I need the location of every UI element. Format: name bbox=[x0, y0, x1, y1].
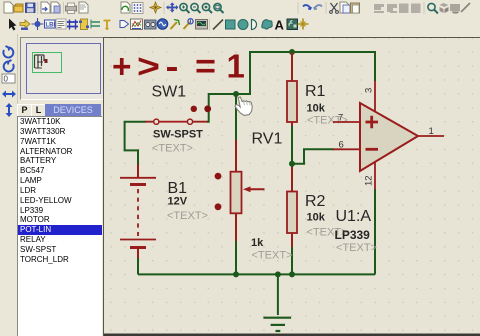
switch SW1 bbox=[145, 105, 211, 124]
svg-text:3: 3 bbox=[364, 88, 375, 93]
svg-text:7: 7 bbox=[338, 113, 343, 124]
2D symbol bbox=[287, 19, 298, 30]
tape recorder mode bbox=[145, 20, 157, 29]
terminal mode bbox=[91, 20, 100, 29]
terminal D bbox=[120, 21, 129, 28]
mouse cursor (hand) bbox=[235, 97, 252, 115]
generator mode bbox=[157, 19, 168, 30]
wire: R2 bottom to ground rail bbox=[291, 246, 293, 274]
svg-text:1: 1 bbox=[227, 48, 245, 85]
2D arc bbox=[252, 20, 257, 30]
junction dots bbox=[233, 49, 295, 277]
svg-text:SW-SPST: SW-SPST bbox=[153, 129, 203, 141]
junction R2 bottom bbox=[289, 271, 295, 277]
wire: battery negative to rail bbox=[137, 257, 139, 274]
wiper arrow bbox=[248, 188, 265, 190]
svg-text:>: > bbox=[137, 48, 160, 85]
svg-text:R2: R2 bbox=[305, 193, 326, 210]
node A junction (supply to RV1) bbox=[233, 91, 239, 97]
wire: node B to op-amp pin 6 bbox=[292, 149, 334, 163]
svg-text:LP339: LP339 bbox=[335, 228, 371, 242]
svg-text:10k: 10k bbox=[307, 103, 326, 115]
svg-text:B1: B1 bbox=[168, 180, 188, 197]
editor background bbox=[103, 37, 480, 336]
U1 pin numbers bbox=[338, 88, 434, 186]
svg-text:=: = bbox=[195, 48, 216, 85]
U1 labels bbox=[335, 208, 377, 254]
selection arrow bbox=[9, 19, 17, 31]
svg-text:<TEXT>: <TEXT> bbox=[152, 143, 193, 155]
subcircuit mode bbox=[79, 19, 89, 30]
RV1 labels bbox=[251, 131, 292, 262]
SW1 labels bbox=[152, 84, 204, 155]
svg-text:U1:A: U1:A bbox=[336, 208, 372, 225]
annotation red text "+ > - = 1" bbox=[112, 48, 245, 85]
virtual instruments mode bbox=[196, 20, 208, 30]
svg-text:10k: 10k bbox=[307, 212, 326, 224]
svg-text:12: 12 bbox=[364, 175, 375, 186]
potentiometer RV1 bbox=[215, 140, 265, 241]
component mode bbox=[20, 20, 30, 28]
text script mode bbox=[56, 19, 66, 29]
svg-text:+: + bbox=[112, 48, 132, 85]
wire label mode bbox=[45, 20, 58, 29]
R2 labels bbox=[305, 193, 347, 239]
svg-text:<TEXT>: <TEXT> bbox=[252, 250, 293, 262]
2D line bbox=[213, 20, 223, 30]
junction at rail / R1 top bbox=[289, 49, 295, 55]
svg-text:1: 1 bbox=[429, 126, 434, 137]
wire: op-amp pin 12 down to rail bbox=[374, 189, 376, 274]
svg-text:RV1: RV1 bbox=[252, 131, 283, 148]
svg-text:<TEXT>: <TEXT> bbox=[336, 242, 377, 254]
device pin mode bbox=[104, 21, 111, 31]
resistor R1 bbox=[287, 52, 297, 126]
wire: RV1 bottom to rail bbox=[235, 238, 237, 274]
SW1 actuator dots bbox=[191, 106, 197, 112]
svg-text:0: 0 bbox=[4, 75, 9, 84]
2D closed path bbox=[262, 20, 272, 30]
RV1 actuator dots bbox=[215, 173, 222, 180]
voltage probe mode bbox=[171, 20, 180, 30]
junction RV1 bottom bbox=[233, 271, 239, 277]
battery B1 bbox=[120, 165, 156, 259]
wire: switch right pin up to supply rail, top rail to op-amp pin 3 bbox=[207, 52, 375, 122]
bus mode bbox=[67, 20, 78, 30]
wire: ground stub bbox=[277, 274, 279, 315]
B1 labels bbox=[167, 180, 208, 222]
svg-text:12V: 12V bbox=[168, 196, 188, 208]
2D circle bbox=[238, 20, 248, 30]
graph mode bbox=[131, 19, 143, 30]
svg-text:SW1: SW1 bbox=[152, 84, 187, 101]
2D markers bbox=[298, 19, 309, 30]
svg-text:-: - bbox=[166, 48, 179, 85]
wire: node A down to RV1 top pin bbox=[235, 94, 237, 140]
junction dot mode bbox=[32, 18, 44, 30]
resistor R2 bbox=[287, 167, 297, 247]
svg-text:1k: 1k bbox=[251, 237, 264, 249]
current probe mode bbox=[184, 19, 194, 29]
editor frame bbox=[104, 38, 480, 336]
wire: bottom ground rail bbox=[138, 273, 375, 275]
node B junction (R1/R2 divider) bbox=[289, 161, 295, 167]
svg-text:A: A bbox=[275, 18, 285, 33]
svg-text:R1: R1 bbox=[305, 83, 326, 100]
ground bbox=[263, 318, 291, 331]
wire: battery positive to switch left pin bbox=[125, 122, 146, 165]
junction ground tap bbox=[275, 271, 281, 277]
svg-text:<TEXT>: <TEXT> bbox=[167, 210, 208, 222]
R1 labels bbox=[305, 83, 348, 127]
wire: R1 bottom to node B bbox=[291, 122, 293, 170]
op-amp U1:A bbox=[333, 81, 444, 189]
svg-text:6: 6 bbox=[339, 140, 344, 151]
2D box bbox=[226, 20, 236, 29]
